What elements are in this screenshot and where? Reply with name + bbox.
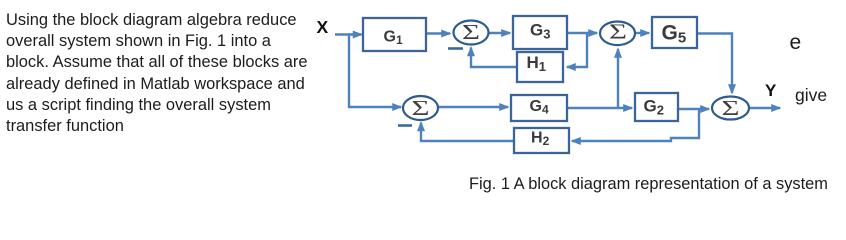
svg-text:Σ: Σ (412, 96, 430, 120)
svg-text:Σ: Σ (722, 96, 740, 120)
svg-text:Σ: Σ (609, 20, 627, 44)
svg-text:Σ: Σ (462, 20, 480, 44)
